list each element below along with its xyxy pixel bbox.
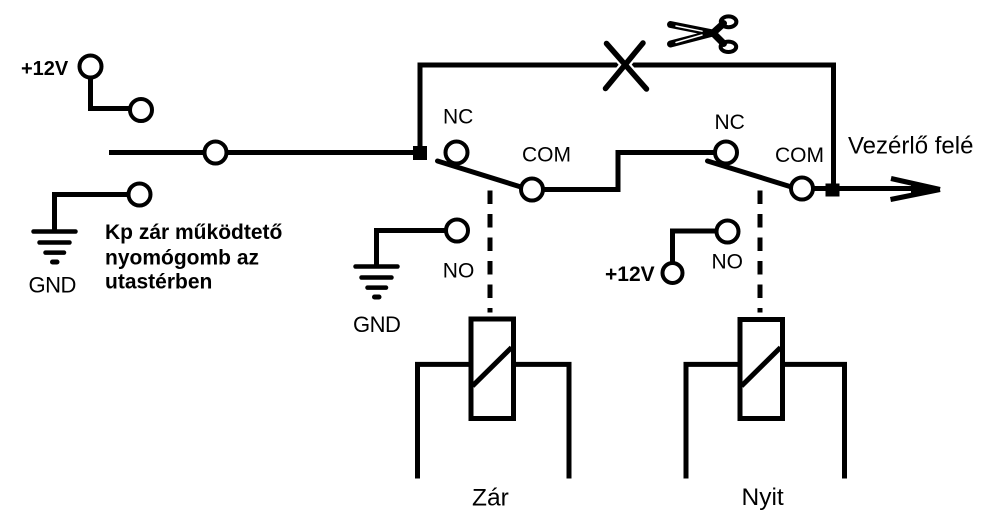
svg-text:nyomógomb az: nyomógomb az (105, 247, 259, 270)
svg-text:+12V: +12V (605, 263, 655, 286)
svg-text:NO: NO (443, 260, 475, 283)
svg-text:NO: NO (712, 251, 744, 274)
svg-text:GND: GND (29, 273, 76, 298)
svg-text:Zár: Zár (472, 485, 509, 512)
svg-text:Kp zár működtető: Kp zár működtető (105, 221, 282, 244)
svg-text:Vezérlő felé: Vezérlő felé (848, 133, 973, 160)
svg-text:utastérben: utastérben (105, 271, 212, 294)
svg-text:Nyit: Nyit (742, 484, 784, 511)
svg-text:NC: NC (715, 111, 745, 134)
svg-text:GND: GND (353, 312, 400, 337)
svg-text:NC: NC (443, 106, 473, 129)
svg-text:+12V: +12V (21, 58, 69, 80)
svg-text:COM: COM (775, 144, 824, 167)
svg-text:COM: COM (522, 144, 571, 167)
